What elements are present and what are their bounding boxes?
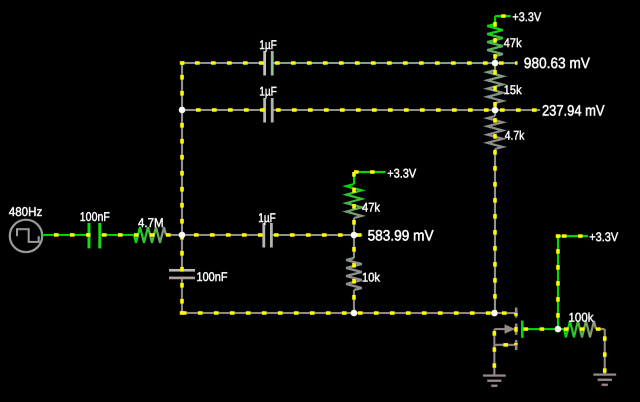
transistor Q1 source bar [515,340,518,350]
svg-text:10k: 10k [362,271,381,285]
svg-text:480Hz: 480Hz [9,205,43,219]
wire node B stub [354,234,362,236]
wire drain lead [494,312,515,314]
node drain junction [491,310,498,317]
svg-text:47k: 47k [504,36,523,50]
wire source lead [494,344,515,346]
wire body tie [493,329,495,345]
node B 583.99mV junction [351,232,358,239]
wire R5 to bottom rail [353,290,355,313]
wire node A to C4 [182,234,263,236]
current dots [43,233,182,237]
node A main junction [179,232,186,239]
wire C1 to R1 [101,234,134,236]
svg-text:1µF: 1µF [259,38,277,52]
ground GND2 [593,375,616,385]
svg-text:+3.3V: +3.3V [589,230,619,244]
wire node B to R5 [353,235,355,258]
wire gate node up [557,236,559,329]
svg-text:100nF: 100nF [196,270,227,284]
wire R7 to corner [596,328,605,330]
wire rail to R4 [353,172,355,184]
wire gate lead [524,328,558,330]
node gate junction [555,326,562,333]
wire gate node to R7 [558,328,564,330]
wire row1 node to R3 [494,63,496,70]
svg-text:47k: 47k [362,200,381,214]
svg-text:583.99 mV: 583.99 mV [368,228,434,245]
power rail +3.3V (top) [495,15,511,17]
power rail +3.3V (mid) [354,171,386,173]
capacitor C1 100nF [87,223,90,249]
capacitor C2 1uF [263,51,266,75]
node 980.63mV junction [492,60,499,67]
svg-text:100nF: 100nF [80,210,110,224]
power rail +3.3V (bottom) [558,235,588,237]
node row2 left junction [179,107,186,114]
AC source V1 480Hz [10,220,42,252]
svg-text:1µF: 1µF [259,84,277,98]
resistor R7 100k [564,321,596,338]
transistor Q1 drain bar [515,308,518,318]
svg-text:1µF: 1µF [258,211,276,225]
wire R2 to row1 node [494,56,496,63]
svg-text:4.7k: 4.7k [505,128,525,142]
svg-text:4.7M: 4.7M [138,216,164,230]
wire corner down to ground [604,329,606,374]
node bottom rail mid junction [351,310,358,317]
capacitor C3 1uF [263,98,266,123]
svg-text:15k: 15k [504,83,523,97]
node 237.94mV junction [492,107,499,114]
svg-text:+3.3V: +3.3V [387,166,417,180]
wire R6 down to drain node [494,149,496,313]
svg-text:+3.3V: +3.3V [512,10,542,24]
wire V1 to C1 [42,234,88,236]
wire row2 left [182,109,263,111]
ground GND1 [483,376,506,386]
capacitor C4 1uF [262,223,265,248]
wire row1 stub [495,62,518,64]
resistor R5 10k [346,258,362,290]
wire row2 node to R6 [494,110,496,116]
transistor Q1 body arrow [494,328,505,330]
svg-text:237.94 mV: 237.94 mV [542,103,605,120]
wire row2 right [273,109,495,111]
resistor R2 47k [487,24,503,56]
transistor Q1 gate bar [521,321,524,338]
wire row1 right [273,62,495,64]
wire C4 to node B [273,234,354,236]
wire row1 left [182,62,263,64]
resistor R1 4.7M [134,227,166,243]
resistor R4 47k [346,184,362,218]
wire row2 stub [495,109,540,111]
wire node A down to C5 [181,235,183,269]
svg-text:980.63 mV: 980.63 mV [524,55,590,72]
svg-text:100k: 100k [568,311,594,325]
wire source to ground [493,345,495,375]
wire rail to R2 [494,16,496,24]
resistor R6 4.7k [487,116,503,149]
capacitor C5 100nF [169,269,195,272]
wire C5 down to bottom rail [181,279,183,313]
wire R1 to node A [166,234,182,236]
resistor R3 15k [487,70,503,103]
transistor Q1 body bar [515,324,518,335]
wire R4 to node B [353,218,355,235]
wire node A up to row1 [181,63,183,235]
wire R3 to row2 node [494,103,496,110]
wire bottom rail [182,312,494,314]
